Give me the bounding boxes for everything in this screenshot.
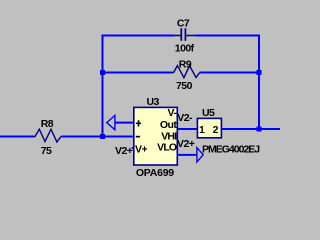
svg-text:V2+: V2+ — [177, 138, 195, 150]
svg-text:OPA699: OPA699 — [136, 167, 174, 179]
svg-text:Out: Out — [160, 119, 177, 131]
svg-text:750: 750 — [176, 80, 193, 92]
svg-text:100f: 100f — [175, 43, 195, 55]
svg-text:U3: U3 — [147, 96, 160, 108]
svg-text:V-: V- — [167, 107, 177, 119]
svg-text:U5: U5 — [202, 107, 215, 119]
svg-text:75: 75 — [41, 145, 52, 157]
svg-text:1: 1 — [199, 124, 205, 136]
svg-text:V2+: V2+ — [115, 145, 133, 157]
svg-text:C7: C7 — [177, 17, 190, 29]
svg-text:2: 2 — [213, 124, 219, 136]
svg-text:R9: R9 — [179, 58, 192, 70]
svg-text:V+: V+ — [135, 143, 147, 155]
svg-text:R8: R8 — [41, 118, 54, 130]
svg-text:VLO: VLO — [157, 141, 177, 153]
svg-text:PMEG4002EJ: PMEG4002EJ — [202, 143, 260, 155]
svg-text:V2-: V2- — [177, 112, 193, 124]
